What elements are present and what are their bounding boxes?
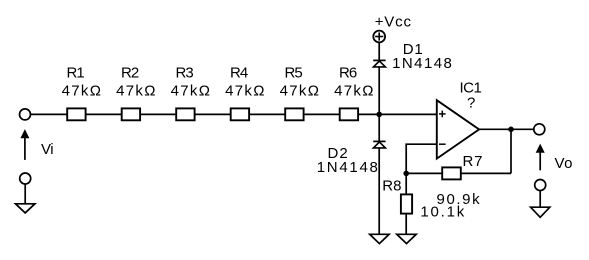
svg-text:+Vcc: +Vcc bbox=[375, 14, 412, 31]
wire: +Vcc to D1 cathode bbox=[378, 42, 380, 60]
resistor R3 bbox=[176, 108, 194, 120]
resistor R1 bbox=[67, 108, 85, 120]
terminal: Vi input bbox=[20, 109, 31, 120]
svg-text:1N4148: 1N4148 bbox=[392, 55, 452, 72]
wire: R3 to R4 bbox=[195, 113, 231, 115]
wire: R2 to R3 bbox=[140, 113, 176, 115]
svg-text:47kΩ: 47kΩ bbox=[116, 83, 155, 100]
voltage arrow Vo bbox=[536, 144, 545, 171]
wire: R8 to ground bbox=[405, 214, 407, 235]
node A junction bbox=[376, 112, 382, 118]
svg-text:47kΩ: 47kΩ bbox=[334, 83, 373, 100]
resistor R4 bbox=[231, 108, 249, 120]
wire: D2 anode to ground bbox=[378, 148, 380, 234]
svg-text:Vo: Vo bbox=[555, 155, 573, 172]
resistor R2 bbox=[122, 108, 140, 120]
resistor R7 bbox=[442, 167, 461, 179]
svg-text:47kΩ: 47kΩ bbox=[280, 83, 319, 100]
svg-text:47kΩ: 47kΩ bbox=[171, 83, 210, 100]
wire: R6 through node A to op-amp + input bbox=[358, 113, 437, 115]
ground (below R8) bbox=[397, 234, 416, 243]
terminal: below Vi bbox=[20, 173, 31, 184]
op-amp U1 (IC1) bbox=[437, 100, 479, 158]
svg-text:R4: R4 bbox=[230, 65, 248, 82]
wire: R5 to R6 bbox=[304, 113, 340, 115]
resistor R6 bbox=[340, 108, 358, 120]
terminal: below Vo bbox=[535, 180, 546, 191]
wire: Vi terminal to R1 bbox=[31, 113, 68, 115]
ground (below D2) bbox=[370, 234, 389, 243]
pin label - (inverting input) bbox=[439, 143, 446, 145]
wire: node C to R7 left lead bbox=[406, 172, 442, 174]
node C junction bbox=[403, 171, 409, 177]
svg-text:R7: R7 bbox=[463, 153, 483, 170]
wire: R4 to R5 bbox=[249, 113, 285, 115]
ground (output side) bbox=[531, 207, 550, 217]
pin label + (non-inverting input) bbox=[439, 111, 446, 118]
power +Vcc symbol bbox=[373, 31, 385, 43]
resistor R5 bbox=[285, 108, 303, 120]
svg-text:R8: R8 bbox=[382, 178, 401, 195]
wire: node C to R8 bbox=[405, 173, 407, 194]
wire: R1 to R2 bbox=[86, 113, 122, 115]
svg-text:R5: R5 bbox=[285, 65, 303, 82]
ground (input side) bbox=[16, 204, 35, 213]
wire: Vi lower terminal to ground bbox=[24, 184, 26, 204]
svg-text:47kΩ: 47kΩ bbox=[225, 83, 264, 100]
resistor R8 bbox=[401, 194, 412, 213]
diode D2 bbox=[373, 141, 385, 148]
voltage arrow Vi bbox=[20, 129, 29, 160]
svg-text:R6: R6 bbox=[339, 65, 357, 82]
wire: op-amp output through node B to Vo terminal bbox=[479, 128, 534, 130]
svg-text:1N4148: 1N4148 bbox=[317, 159, 378, 176]
wire: node B down to R7 right lead bbox=[510, 129, 512, 173]
diode D1 bbox=[373, 60, 385, 67]
wire: op-amp - input to node C bbox=[406, 144, 437, 173]
svg-text:R1: R1 bbox=[67, 65, 85, 82]
node B junction (output) bbox=[508, 127, 514, 133]
wire: node A to D2 cathode bbox=[378, 114, 380, 141]
svg-text:47kΩ: 47kΩ bbox=[62, 83, 101, 100]
svg-text:Vi: Vi bbox=[41, 141, 54, 158]
wire: R7 to node B corner bbox=[461, 172, 511, 174]
svg-text:R3: R3 bbox=[176, 65, 194, 82]
svg-text:10.1k: 10.1k bbox=[420, 204, 464, 221]
wire: D1 anode to node A bbox=[378, 67, 380, 115]
terminal: Vo output bbox=[534, 124, 545, 135]
svg-text:?: ? bbox=[467, 94, 475, 111]
svg-text:R2: R2 bbox=[121, 65, 139, 82]
wire: Vo lower terminal to ground bbox=[539, 191, 541, 208]
